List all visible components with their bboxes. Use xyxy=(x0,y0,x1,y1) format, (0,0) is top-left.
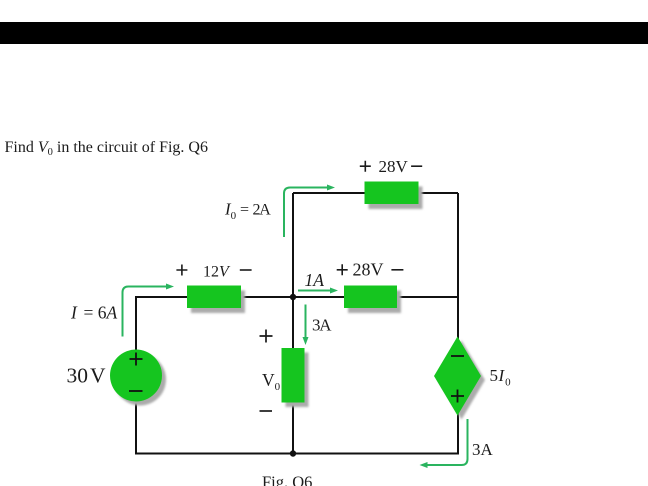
label + 28V - (middle) xyxy=(337,260,404,280)
arrow 1A (green, right) xyxy=(298,288,338,294)
label - below V0 xyxy=(260,410,273,412)
resistor V0 (vertical) xyxy=(282,348,309,407)
wire: left vertical (30V branch) xyxy=(135,296,137,454)
svg-text:I= 6A: I= 6A xyxy=(70,303,118,323)
arrow 3A (green, down then left, bottom right) xyxy=(420,419,468,468)
junction node B (middle of middle wire) xyxy=(290,294,296,300)
label + 12V - xyxy=(176,264,251,281)
label + above V0 xyxy=(260,330,273,343)
resistor (top 28V) xyxy=(365,182,423,210)
svg-text:3A: 3A xyxy=(472,440,494,459)
svg-text:5I0: 5I0 xyxy=(490,366,512,389)
svg-text:30V: 30V xyxy=(67,364,107,388)
arrow I=6A (green, up then right) xyxy=(123,284,175,337)
resistor (middle 28V) xyxy=(344,286,401,314)
svg-text:V0: V0 xyxy=(262,370,281,393)
resistor (12V) xyxy=(187,286,245,314)
svg-text:Find V0 in the circuit of Fig.: Find V0 in the circuit of Fig. Q6 xyxy=(5,139,208,158)
svg-text:28V: 28V xyxy=(379,157,409,176)
wire: middle vertical upper (node B to top branch) xyxy=(292,193,294,297)
svg-text:3A: 3A xyxy=(312,316,332,335)
voltage source 30V (circle) xyxy=(110,350,166,406)
svg-text:I0=2A: I0=2A xyxy=(224,200,271,223)
svg-text:12V: 12V xyxy=(203,264,231,281)
label + 28V - (top) xyxy=(360,157,422,176)
dependent source 5I0 (diamond) xyxy=(434,337,485,420)
wire: middle vertical lower (through V0) xyxy=(292,297,294,454)
svg-text:28V: 28V xyxy=(353,260,384,280)
top black bar xyxy=(0,22,648,44)
wire: right vertical xyxy=(457,193,459,454)
wire: bottom horizontal xyxy=(135,453,459,455)
arrow 3A (green, down, above V0) xyxy=(303,305,309,346)
arrow I0=2A (green, up then right) xyxy=(284,185,335,238)
wire: top horizontal xyxy=(293,192,458,194)
svg-text:Fig. Q6: Fig. Q6 xyxy=(262,473,312,486)
wire: middle horizontal xyxy=(135,296,459,298)
junction node at bottom wire xyxy=(290,450,296,456)
svg-text:1A: 1A xyxy=(305,270,325,290)
